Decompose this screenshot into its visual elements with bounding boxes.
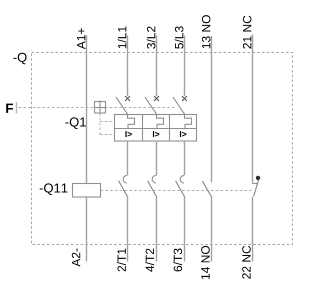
wire 13 NO [211, 36, 213, 182]
magnetic release I> pole 2 [153, 131, 159, 137]
breaker contact pole 1 (x mark) [125, 96, 130, 101]
breaker contact pole 2 (x mark) [154, 96, 159, 101]
wire pole 1 mid [127, 141, 129, 175]
dashed linkage coil to contacts [101, 190, 252, 192]
wire 6/T3 bottom [184, 197, 186, 262]
terminal label 14 NO [201, 246, 210, 279]
main contact pole 2 (blade) [148, 181, 157, 197]
main contact pole 2 (semicircle) [152, 175, 156, 183]
wire 14 NO bottom [211, 197, 213, 262]
terminal label A1+ [77, 28, 85, 49]
trip unit grid box [115, 115, 197, 142]
wire A1+ top [86, 35, 88, 183]
breaker contact pole 1 (blade) [116, 97, 128, 115]
main contact pole 1 (semicircle) [123, 175, 127, 183]
label -Q [13, 53, 26, 65]
wire 3/L2 [156, 36, 158, 97]
dashed linkage actuator to trip units [100, 113, 115, 135]
terminal label A2- [72, 249, 80, 267]
thermal release pole 3 [185, 115, 192, 129]
dashed trip line F [19, 107, 178, 109]
terminal label 22 NC [242, 246, 251, 279]
actuator square [95, 101, 106, 114]
breaker contact pole 3 (x mark) [182, 96, 187, 101]
wire 4/T2 bottom [156, 197, 158, 262]
label -Q1 [65, 117, 85, 129]
aux NO contact 13-14 (blade) [202, 181, 211, 197]
terminal label 2/T1 [117, 249, 126, 272]
main contact pole 1 (blade) [119, 181, 128, 197]
thermal release pole 2 [157, 115, 164, 129]
wire pole 3 mid [184, 141, 186, 175]
wire 2/T1 bottom [127, 197, 129, 262]
breaker contact pole 3 (blade) [173, 97, 185, 115]
breaker contact pole 2 (blade) [145, 97, 157, 115]
terminal label 4/T2 [145, 249, 154, 272]
aux NC contact 21-22 (foot) [253, 183, 259, 185]
aux NC contact 21-22 (blade) [254, 180, 259, 197]
aux NC contact 21-22 (dot) [256, 176, 260, 180]
terminal label 3/L2 [147, 26, 156, 48]
terminal label 6/T3 [173, 249, 182, 272]
wire 1/L1 [127, 36, 129, 97]
wire 22 NC bottom [252, 197, 254, 262]
label F [6, 104, 13, 113]
terminal tick F [16, 102, 18, 113]
dashed enclosure -Q [32, 53, 293, 245]
label -Q11 [40, 183, 68, 195]
wire 21 NC [252, 35, 254, 184]
magnetic release I> pole 1 [125, 131, 131, 137]
terminal label 1/L1 [118, 26, 127, 48]
main contact pole 3 (semicircle) [180, 175, 184, 183]
coil -Q11 [73, 184, 101, 198]
thermal release pole 1 [128, 115, 135, 129]
wire A2- bottom [86, 197, 88, 262]
terminal label 5/L3 [175, 26, 184, 48]
main contact pole 3 (blade) [176, 181, 185, 197]
magnetic release I> pole 3 [180, 131, 186, 137]
wire 5/L3 [184, 36, 186, 97]
terminal label 13 NO [202, 15, 211, 48]
terminal label 21 NC [243, 16, 252, 49]
wire pole 2 mid [156, 141, 158, 175]
